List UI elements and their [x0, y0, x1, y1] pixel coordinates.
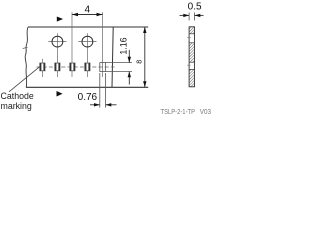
centerline sprocket 2 vertical: [86, 33, 88, 77]
dim 0.5 left arrow: [183, 14, 189, 17]
torn edge tick: [23, 47, 28, 48]
sprocket hole 2: [82, 36, 93, 47]
svg-text:marking: marking: [1, 101, 32, 111]
dim 4 line: [72, 14, 103, 16]
dim 0.5 left line: [180, 14, 190, 16]
dim 0.5 right extension: [194, 13, 196, 21]
dim 8 top arrow: [143, 27, 146, 33]
pocket 1 with component: [40, 63, 45, 71]
centerline sprocket 1 horizontal: [48, 41, 66, 43]
pocket 3 with component: [70, 63, 75, 71]
dim 0.76 left arrow: [94, 103, 100, 106]
pocket 4 with component: [85, 63, 90, 71]
svg-text:0.76: 0.76: [78, 92, 98, 103]
tape top edge: [28, 26, 148, 28]
dim 8 bottom arrow: [143, 81, 146, 87]
pocket 2 with component: [55, 63, 60, 71]
dim 1.16 upper line: [128, 50, 130, 63]
svg-text:V03: V03: [200, 109, 211, 116]
dim 0.76 left extension: [99, 73, 101, 108]
side view centerline dash sprocket: [187, 37, 190, 39]
dim 0.5 right line: [195, 14, 204, 16]
dim 8 line: [144, 27, 146, 87]
centerline sprocket 2 horizontal: [78, 41, 96, 43]
tape bottom edge: [26, 86, 148, 88]
dim 1.16 lower arrow: [128, 72, 131, 78]
dim 4 right arrow: [97, 13, 103, 16]
dim 0.5 left extension: [188, 13, 190, 21]
centerline pocket row horizontal: [37, 66, 115, 68]
centerline pocket 1 vertical: [41, 59, 43, 77]
dim 1.16 lower line: [128, 72, 130, 85]
dim 1.16 upper arrow: [128, 57, 131, 63]
pocket 5 empty: [100, 63, 106, 72]
cathode leader line: [9, 66, 40, 91]
svg-text:0.5: 0.5: [188, 2, 202, 13]
dim 0.76 right extension: [105, 73, 107, 108]
svg-text:Cathode: Cathode: [1, 91, 34, 101]
centerline pocket 3 vertical / dim 4 left extension: [71, 12, 73, 77]
svg-text:TSLP-2-1-TP: TSLP-2-1-TP: [161, 109, 196, 116]
dim 0.76 right arrow: [106, 103, 112, 106]
dim 0.76 right line: [106, 104, 117, 106]
direction flag top: [57, 17, 63, 22]
side view centerline dash pocket: [187, 64, 190, 66]
tape right edge: [112, 27, 113, 87]
svg-text:4: 4: [85, 5, 91, 16]
centerline pocket 5 vertical / dim 4 right extension: [102, 12, 104, 77]
dim 0.76 left line: [90, 104, 100, 106]
dim 1.16 bottom extension: [106, 71, 133, 73]
tape torn left edge: [25, 27, 28, 87]
svg-text:1.16: 1.16: [119, 37, 129, 54]
dim 0.5 right arrow: [195, 14, 201, 17]
dim 4 left arrow: [72, 13, 78, 16]
sprocket hole 1: [52, 36, 63, 47]
svg-text:8: 8: [134, 60, 143, 64]
direction flag bottom: [57, 91, 63, 97]
side view tape body: [189, 27, 194, 87]
centerline sprocket 1 vertical: [56, 33, 58, 77]
dim 1.16 top extension: [106, 62, 133, 64]
